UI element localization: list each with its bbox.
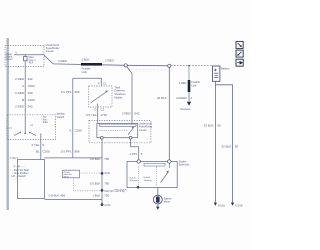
svg-text:A: A: [22, 84, 24, 88]
svg-text:C200: C200: [42, 149, 50, 153]
svg-text:0.8 BLK: 0.8 BLK: [90, 157, 101, 161]
wire PNP bottom output: [44, 199, 102, 201]
dashed leader to S110: [74, 178, 101, 191]
svg-text:1732: 1732: [100, 113, 107, 117]
svg-text:32 BLK: 32 BLK: [221, 144, 231, 148]
viewer icon 2: [236, 50, 243, 57]
starter motor label: [164, 196, 172, 203]
main feed wire: [44, 55, 169, 66]
svg-text:Center: Center: [46, 49, 54, 53]
svg-text:2 RED: 2 RED: [105, 58, 115, 62]
svg-text:G110: G110: [218, 204, 225, 208]
svg-text:5: 5: [42, 143, 44, 147]
relay label: [139, 121, 153, 131]
svg-text:750: 750: [104, 194, 109, 198]
wire 2 RED down from fuse block: [24, 66, 26, 114]
ignition switch box (dashed): [7, 115, 56, 140]
svg-text:2: 2: [190, 96, 192, 100]
wire labels 2 RED 342 / connectors: [15, 77, 35, 108]
terminal S: [137, 160, 140, 163]
svg-text:2 YEL 5: 2 YEL 5: [10, 157, 19, 160]
wire 2 YEL 5: [40, 140, 42, 160]
svg-text:0.5 YEL: 0.5 YEL: [86, 113, 97, 117]
svg-text:Switch: Switch: [57, 115, 65, 119]
jog to theft module: [73, 78, 102, 86]
svg-text:10 RED: 10 RED: [176, 96, 187, 100]
svg-text:642: 642: [134, 111, 139, 115]
svg-text:0.8 BLK 450: 0.8 BLK 450: [49, 193, 66, 197]
svg-text:Start: Start: [43, 121, 48, 124]
label Underhood Fuse/Relay Center: [44, 45, 46, 47]
svg-text:C100: C100: [28, 98, 36, 102]
svg-text:2 RED: 2 RED: [15, 91, 25, 95]
wire below link B: [188, 92, 190, 102]
ground dot G100 chain: [101, 203, 104, 206]
wiper contact left: [14, 132, 20, 135]
starter cable wire 32 BLK: [168, 67, 170, 159]
wire module to relay 0.5 YEL: [97, 107, 99, 124]
dashed leader to S100: [80, 172, 101, 174]
svg-text:340: 340: [28, 91, 33, 95]
svg-text:756: 756: [104, 157, 109, 161]
svg-text:0.5 BLK: 0.5 BLK: [90, 182, 101, 186]
underhood fuse block box (dashed): [5, 45, 44, 66]
fusible link text: [82, 67, 91, 74]
dashed wire to battery: [171, 65, 212, 67]
wire to starter relay 3 RED 642: [127, 66, 132, 123]
svg-text:2 RED: 2 RED: [15, 104, 25, 108]
viewer icon 3: [236, 59, 243, 66]
svg-text:C1: C1: [103, 81, 107, 85]
winding labels: [130, 177, 153, 182]
svg-text:G: G: [94, 107, 97, 111]
connector circle C100: [124, 64, 127, 67]
svg-text:A: A: [69, 128, 71, 132]
vertical wire 0.5 PPL 806: [72, 78, 74, 158]
wire PNP top to chain: [44, 157, 102, 159]
svg-text:342: 342: [28, 104, 33, 108]
solenoid contact bar: [144, 163, 165, 166]
ghost dashed wire: [128, 68, 167, 70]
svg-text:3 RED: 3 RED: [122, 111, 132, 115]
theft deterrent module box (dashed): [89, 86, 112, 107]
module label: [114, 86, 126, 99]
fusible link B (thick): [188, 80, 191, 92]
off-page arrow to devices: [187, 102, 191, 106]
svg-text:A: A: [15, 52, 17, 55]
underhood fuse/relay center box (dashed) around relay: [89, 120, 151, 142]
svg-text:C400: C400: [28, 84, 36, 88]
svg-text:Solenoid: Solenoid: [179, 163, 190, 167]
svg-text:P/N (W/ A/T): P/N (W/ A/T): [114, 189, 127, 192]
svg-text:Distrib.: Distrib.: [6, 56, 14, 59]
splice dot S110: [101, 189, 104, 192]
wiper contact right (start): [30, 132, 36, 135]
svg-text:2 YEL: 2 YEL: [31, 143, 39, 147]
clutch start switch box: [63, 170, 80, 178]
switch output wire: [40, 134, 42, 140]
viewer icon 1: [236, 41, 243, 48]
svg-text:Winding: Winding: [144, 180, 153, 182]
svg-text:B1: B1: [36, 149, 40, 153]
fuse F1: [24, 55, 26, 67]
fusible link B branch: [188, 66, 190, 80]
svg-text:Link: Link: [191, 83, 197, 87]
ignition switch label: [57, 112, 66, 119]
fuse value label: [29, 57, 37, 64]
page edge scan bar: [7, 38, 9, 210]
svg-text:S100: S100: [104, 172, 110, 175]
svg-text:6: 6: [141, 152, 143, 156]
winding dashed mid: [156, 167, 158, 187]
svg-text:2 RED: 2 RED: [15, 77, 25, 81]
svg-text:Motor: Motor: [164, 200, 171, 204]
svg-text:Devices: Devices: [180, 107, 191, 111]
svg-text:4 RED: 4 RED: [179, 81, 187, 85]
labels 32 BLK 50 on ground wires: [204, 124, 239, 149]
svg-text:B: B: [22, 98, 24, 102]
fuse block text: [6, 53, 14, 61]
svg-text:50: 50: [235, 144, 239, 148]
svg-text:750: 750: [104, 182, 109, 186]
svg-text:32 BLK: 32 BLK: [157, 96, 167, 100]
switch pole wire: [24, 115, 26, 133]
relay contact: [128, 128, 133, 135]
module contact diagonal: [91, 92, 107, 103]
relay output wire to solenoid 1 PPL 6: [131, 139, 139, 160]
svg-text:Module: Module: [114, 96, 123, 99]
svg-text:Winding: Winding: [130, 180, 139, 182]
relay terminal right: [129, 136, 132, 139]
svg-text:- - . - . -: - - . - . -: [13, 178, 21, 181]
relay dashed internal: [100, 129, 128, 131]
park/neutral position switch box: [18, 159, 45, 198]
svg-text:G100: G100: [104, 204, 111, 207]
svg-text:Pull-In: Pull-In: [130, 177, 137, 179]
svg-text:40 A: 40 A: [29, 61, 34, 64]
module pin stubs: [97, 104, 99, 108]
ground G100: [231, 203, 234, 206]
svg-text:1 PPL: 1 PPL: [129, 152, 138, 156]
svg-text:Hold-In: Hold-In: [144, 177, 152, 179]
svg-text:(M/T): (M/T): [64, 176, 69, 178]
solenoid moving contact: [161, 173, 168, 183]
svg-text:342: 342: [28, 77, 33, 81]
svg-text:50: 50: [217, 124, 221, 128]
svg-text:Battery: Battery: [221, 66, 230, 70]
svg-text:0.5 PPL: 0.5 PPL: [61, 150, 72, 154]
PNP switch inner text: [11, 166, 29, 181]
solenoid label: [179, 159, 190, 166]
motor ground: [157, 204, 159, 207]
ground G110: [214, 203, 217, 206]
ground chain wire: [101, 139, 103, 205]
relay terminal left: [100, 136, 103, 139]
terminal B: [168, 160, 171, 163]
svg-text:Lock: Lock: [8, 127, 14, 129]
svg-text:0.5 PPL: 0.5 PPL: [61, 90, 72, 94]
svg-text:Link: Link: [82, 70, 88, 74]
winding dashed S: [138, 167, 140, 186]
svg-text:C200: C200: [75, 128, 83, 132]
splice dot S100: [101, 172, 104, 175]
svg-text:Center: Center: [6, 58, 13, 61]
battery: [212, 66, 220, 81]
svg-text:806: 806: [75, 150, 80, 154]
svg-text:32 BLK: 32 BLK: [204, 124, 214, 128]
bus wire: [14, 54, 44, 56]
winding ground dot: [137, 186, 140, 189]
relay coil bar: [100, 124, 137, 126]
svg-text:F: F: [98, 81, 100, 85]
starter solenoid box: [127, 162, 177, 188]
svg-text:C2: C2: [100, 107, 104, 111]
starter motor: [157, 188, 159, 196]
svg-text:B3: B3: [30, 125, 33, 127]
svg-text:1 BLK: 1 BLK: [92, 194, 100, 198]
svg-text:Center: Center: [139, 128, 147, 132]
svg-text:2 BLK: 2 BLK: [81, 58, 89, 62]
starter relay box: [97, 124, 138, 138]
connector circle right: [168, 64, 171, 67]
fusible link A (thick): [81, 63, 102, 66]
svg-text:G100: G100: [235, 204, 243, 208]
svg-text:2 RED: 2 RED: [58, 59, 68, 63]
svg-text:806: 806: [75, 90, 80, 94]
ignition switch inner text block: [43, 116, 48, 124]
battery negative wires: [215, 81, 232, 202]
